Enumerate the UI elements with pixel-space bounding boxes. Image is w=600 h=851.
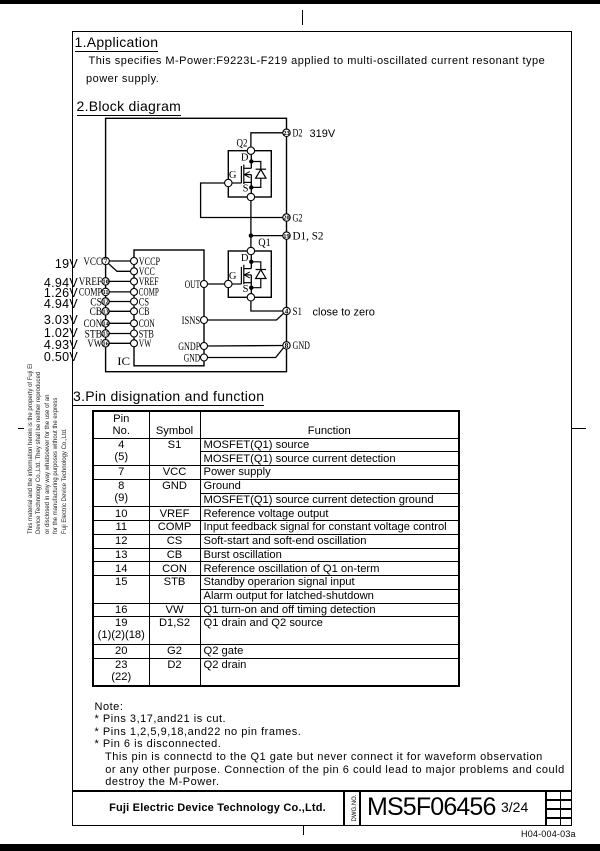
IC pin GND xyxy=(184,350,208,364)
top center tick xyxy=(302,10,304,25)
wire GNDP to node GND xyxy=(208,345,283,348)
IC pin ISNS xyxy=(182,313,208,327)
wire Q2 drain to node D2 xyxy=(251,133,283,147)
pin 13 CB xyxy=(90,304,110,318)
wire VCC pin7 to VCCP xyxy=(108,261,130,271)
IC pin CB xyxy=(131,304,150,318)
IC pin VW xyxy=(131,336,152,350)
svg-text:16: 16 xyxy=(103,341,109,348)
svg-text:close to zero: close to zero xyxy=(313,307,375,319)
heading 3 xyxy=(73,388,264,406)
doc code xyxy=(521,829,576,839)
svg-text:8: 8 xyxy=(285,341,289,350)
IC pin CS xyxy=(131,294,150,308)
wire CB pin13 xyxy=(109,310,130,312)
junction dot node D1S2 xyxy=(249,233,253,237)
IC pin GNDP xyxy=(178,339,207,353)
svg-text:VW: VW xyxy=(87,336,102,350)
svg-text:S: S xyxy=(243,184,249,195)
svg-text:11: 11 xyxy=(103,289,109,296)
notes xyxy=(95,701,565,790)
right fold tick xyxy=(572,428,586,430)
svg-text:IC: IC xyxy=(117,354,130,368)
transistor Q2 xyxy=(225,136,272,201)
DWG.NO. cell xyxy=(343,790,345,826)
wire GND to node GND xyxy=(208,348,284,358)
svg-text:15: 15 xyxy=(103,331,109,338)
heading 1 xyxy=(75,34,159,52)
footer company xyxy=(82,790,353,826)
svg-text:Q2: Q2 xyxy=(237,136,248,150)
svg-text:10: 10 xyxy=(103,279,109,286)
svg-text:319V: 319V xyxy=(310,128,336,140)
svg-text:VW: VW xyxy=(139,336,152,350)
wire COMP pin11 xyxy=(109,291,130,293)
bottom trim bar xyxy=(0,844,600,851)
svg-text:D: D xyxy=(241,253,249,264)
pin 16 VW xyxy=(87,336,109,350)
IC pin VCCP xyxy=(131,254,161,268)
wire VW pin16 xyxy=(109,342,130,344)
svg-text:12: 12 xyxy=(103,299,109,306)
revision grid xyxy=(545,790,547,826)
node G2 pin 20 xyxy=(283,210,303,224)
pin 12 CS xyxy=(90,294,109,308)
wire outer loop rectangle xyxy=(106,118,287,371)
rotated disclaimer xyxy=(27,364,69,534)
footer top line xyxy=(72,790,572,792)
pin 10 VREF xyxy=(79,274,110,288)
wire VREF pin10 xyxy=(109,280,130,282)
IC pin VCC xyxy=(131,264,155,278)
pin 14 CON xyxy=(84,316,110,330)
page frame xyxy=(72,31,572,826)
svg-text:19: 19 xyxy=(283,233,289,240)
pin 7 VCC xyxy=(83,254,109,268)
IC pin OUT xyxy=(185,277,208,291)
svg-text:14: 14 xyxy=(103,321,109,328)
svg-text:D2: D2 xyxy=(293,126,303,140)
bottom center tick xyxy=(303,826,305,835)
IC pin COMP xyxy=(131,285,159,299)
top trim bar xyxy=(0,0,600,4)
wire CS pin12 xyxy=(109,301,130,303)
wire Q1 source to node S1 xyxy=(251,301,283,311)
op-amp IC block U1 xyxy=(117,250,204,368)
svg-text:S1: S1 xyxy=(293,304,303,318)
pin function table xyxy=(92,410,460,687)
wire junction to node 19 xyxy=(251,235,283,237)
IC pin STB xyxy=(131,326,154,340)
drawing number xyxy=(367,793,496,822)
svg-text:ISNS: ISNS xyxy=(182,313,201,327)
wire Q2 gate loop to node G2 xyxy=(201,183,283,218)
svg-text:Q1: Q1 xyxy=(258,235,271,249)
IC pin VREF xyxy=(131,274,159,288)
IC pin CON xyxy=(131,316,155,330)
node S1 pin 4 xyxy=(283,304,375,319)
transistor Q1 xyxy=(225,235,272,301)
wire Q2 source down xyxy=(250,201,252,248)
wire STB pin15 xyxy=(109,333,130,335)
svg-text:20: 20 xyxy=(283,215,289,222)
voltage annotations xyxy=(0,257,78,271)
svg-text:23: 23 xyxy=(283,130,289,137)
svg-text:GND: GND xyxy=(184,350,201,364)
svg-text:OUT: OUT xyxy=(185,277,201,291)
heading 2 xyxy=(77,98,182,116)
svg-text:13: 13 xyxy=(103,309,109,316)
svg-text:S: S xyxy=(243,284,249,295)
pin 15 STB xyxy=(85,326,110,340)
wire OUT to Q1 gate xyxy=(208,283,225,285)
svg-text:4: 4 xyxy=(285,306,289,315)
svg-text:7: 7 xyxy=(104,256,108,265)
svg-text:VCC: VCC xyxy=(83,254,102,268)
left fold mark xyxy=(18,428,24,430)
svg-text:GND: GND xyxy=(293,338,311,352)
pin 11 COMP xyxy=(79,285,109,299)
svg-text:G2: G2 xyxy=(293,210,303,224)
wire ISNS to node S1 xyxy=(208,313,284,320)
node D2 pin 23 xyxy=(283,126,336,140)
node GND pin 8 xyxy=(283,338,310,352)
svg-text:D: D xyxy=(241,153,249,164)
node D1,S2 pin 19 xyxy=(283,228,324,242)
svg-text:D1, S2: D1, S2 xyxy=(293,228,324,242)
wire CON pin14 xyxy=(109,322,130,324)
